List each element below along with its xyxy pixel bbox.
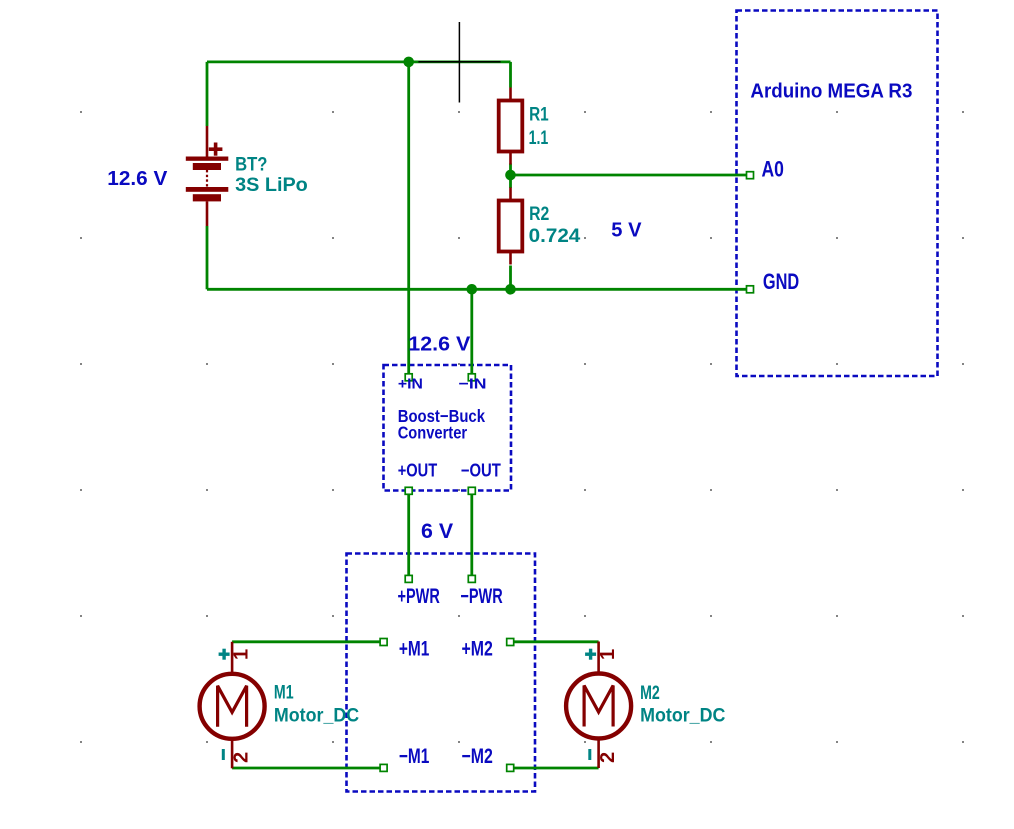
svg-text:+M1: +M1 <box>399 637 430 660</box>
svg-text:12.6 V: 12.6 V <box>107 168 168 190</box>
svg-text:3S LiPo: 3S LiPo <box>235 175 308 196</box>
svg-text:BT?: BT? <box>235 155 267 176</box>
svg-text:R1: R1 <box>529 104 549 125</box>
svg-text:6 V: 6 V <box>421 520 453 543</box>
svg-text:−IN: −IN <box>459 376 487 393</box>
svg-text:Motor_DC: Motor_DC <box>274 706 360 727</box>
svg-text:12.6 V: 12.6 V <box>408 334 471 356</box>
svg-text:Arduino MEGA R3: Arduino MEGA R3 <box>750 81 912 103</box>
svg-text:GND: GND <box>763 269 799 294</box>
svg-text:+PWR: +PWR <box>398 585 440 608</box>
svg-text:M2: M2 <box>640 683 660 704</box>
svg-text:+OUT: +OUT <box>398 461 438 481</box>
svg-text:5 V: 5 V <box>611 220 642 242</box>
svg-text:1: 1 <box>231 649 253 660</box>
svg-text:−PWR: −PWR <box>460 585 502 608</box>
svg-text:A0: A0 <box>762 156 784 181</box>
svg-text:+M2: +M2 <box>462 637 493 660</box>
svg-text:1.1: 1.1 <box>529 128 549 149</box>
svg-text:2: 2 <box>230 752 252 763</box>
svg-text:1: 1 <box>597 649 619 660</box>
svg-text:Motor_DC: Motor_DC <box>640 706 726 727</box>
svg-text:M1: M1 <box>274 683 294 704</box>
svg-text:−OUT: −OUT <box>461 461 501 481</box>
svg-text:Converter: Converter <box>398 422 468 442</box>
svg-text:0.724: 0.724 <box>529 226 581 247</box>
svg-text:R2: R2 <box>529 204 549 225</box>
svg-text:+IN: +IN <box>398 376 423 393</box>
svg-text:−M1: −M1 <box>399 745 430 768</box>
svg-text:−M2: −M2 <box>462 745 493 768</box>
svg-text:2: 2 <box>597 752 619 763</box>
